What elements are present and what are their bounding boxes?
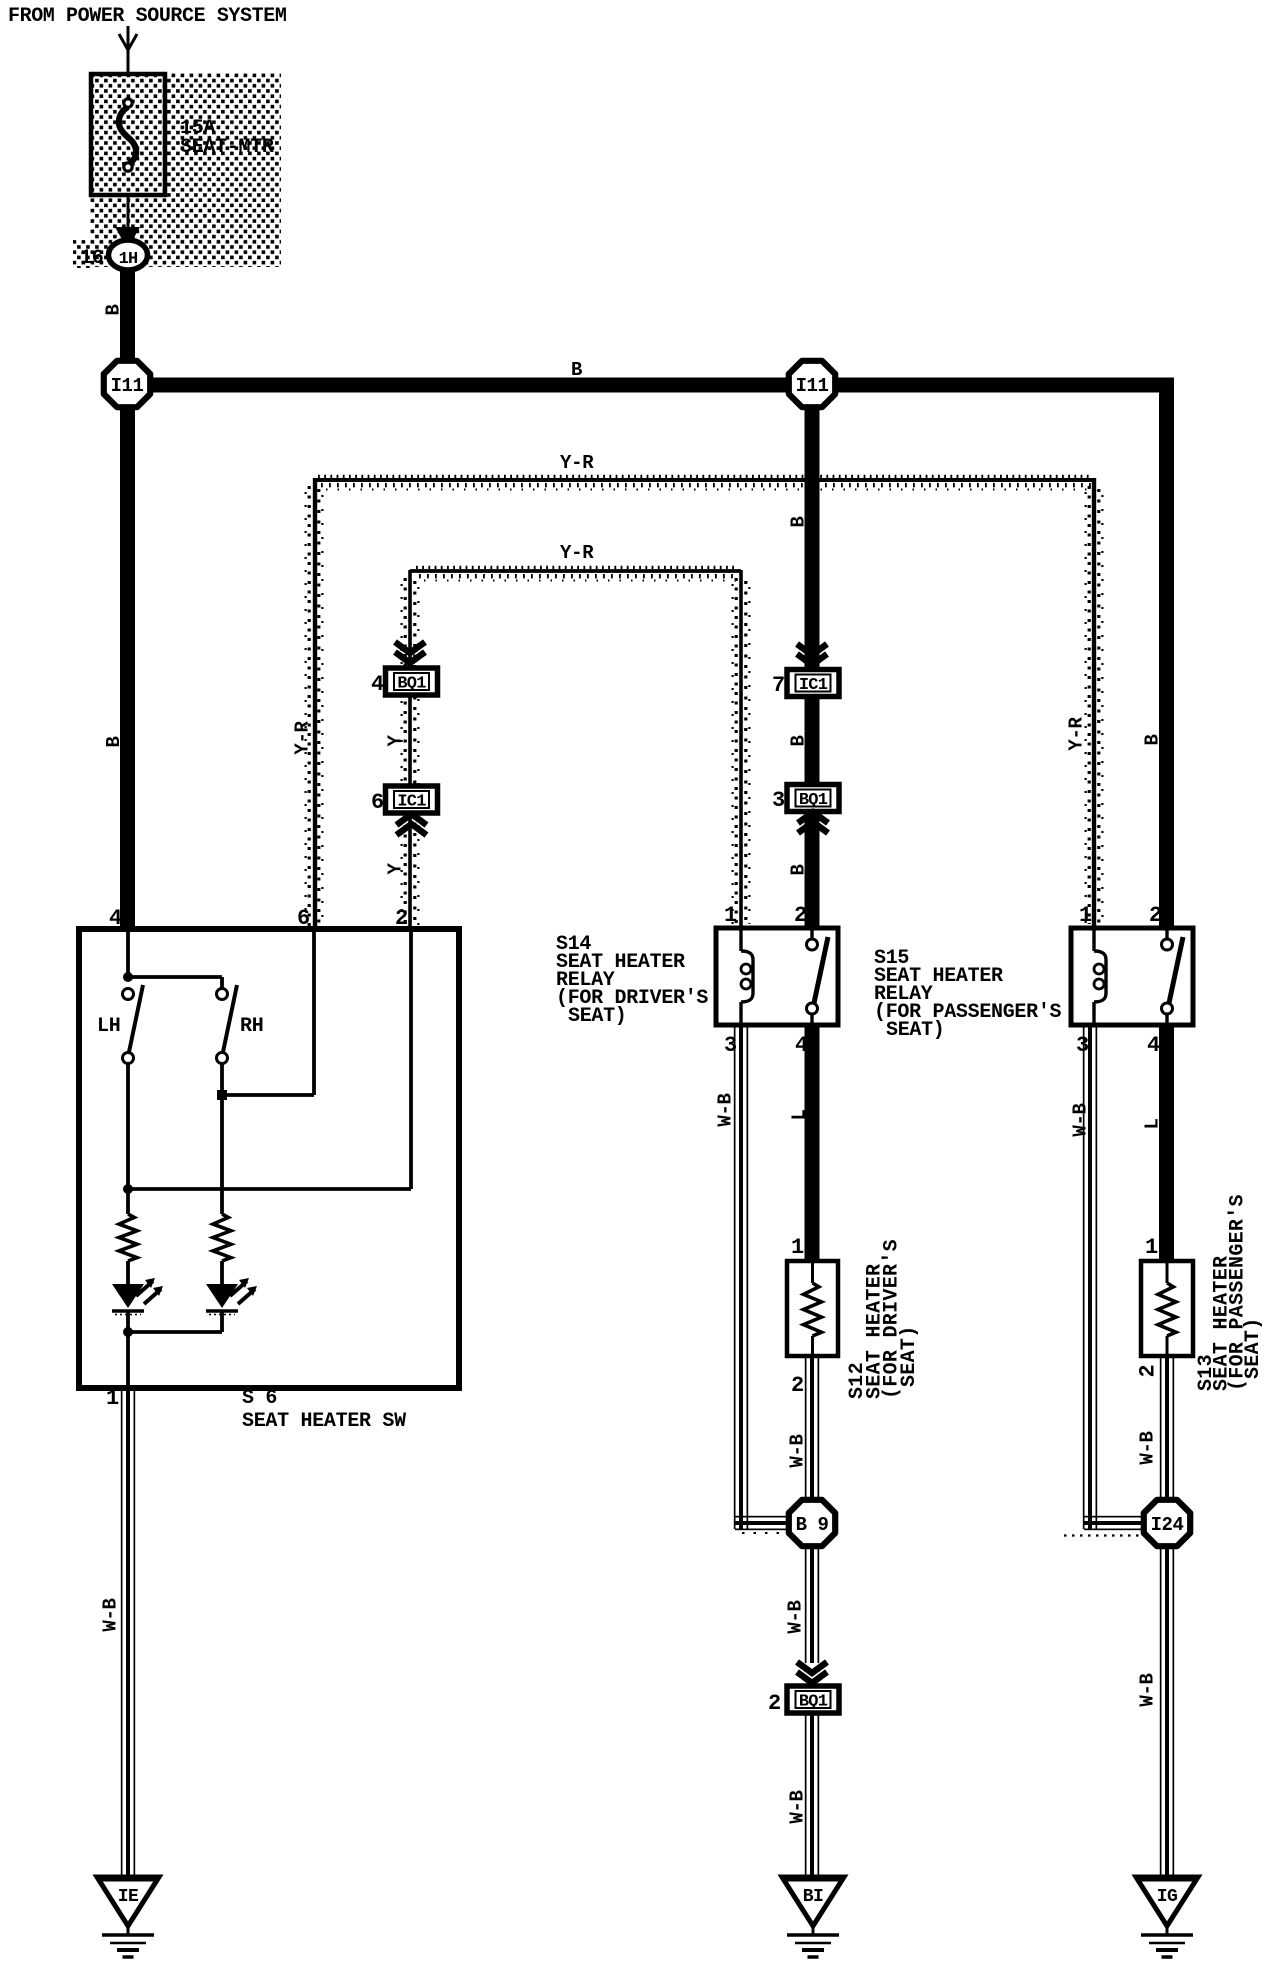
svg-text:3: 3 [1076,1033,1089,1058]
svg-text:IG: IG [1157,1887,1178,1907]
svg-text:B: B [788,864,810,875]
svg-text:1: 1 [1145,1235,1158,1260]
svg-text:IC1: IC1 [799,676,828,695]
svg-text:2: 2 [768,1691,781,1716]
svg-text:B: B [103,736,125,747]
svg-text:1: 1 [1079,903,1092,928]
svg-text:SEAT): SEAT) [898,1325,921,1387]
svg-text:SEAT): SEAT) [568,1005,627,1028]
svg-text:BQ1: BQ1 [799,1693,828,1712]
svg-text:2: 2 [395,906,408,931]
svg-text:6: 6 [297,906,310,931]
svg-text:Y-R: Y-R [1066,716,1088,750]
svg-text:W-B: W-B [787,1434,809,1467]
svg-text:S 6: S 6 [242,1387,277,1410]
svg-text:1: 1 [106,1386,119,1411]
svg-text:Y-R: Y-R [292,720,314,754]
svg-text:4: 4 [795,1033,808,1058]
svg-text:1H: 1H [119,250,138,269]
svg-text:BQ1: BQ1 [799,791,828,810]
svg-text:2: 2 [1136,1365,1161,1378]
svg-text:3: 3 [772,788,785,813]
svg-text:W-B: W-B [1137,1431,1159,1464]
svg-text:W-B: W-B [785,1600,807,1633]
svg-text:Y-R: Y-R [560,452,594,474]
svg-text:IC1: IC1 [397,793,426,812]
svg-text:6: 6 [371,790,384,815]
svg-text:SEAT): SEAT) [1242,1317,1265,1379]
svg-text:W-B: W-B [787,1790,809,1823]
svg-text:1: 1 [791,1235,804,1260]
svg-text:4: 4 [371,672,384,697]
svg-text:I11: I11 [796,375,829,397]
svg-text:2: 2 [1149,903,1162,928]
svg-text:W-B: W-B [715,1093,737,1126]
svg-text:B: B [103,304,125,315]
svg-text:W-B: W-B [1070,1103,1092,1136]
svg-text:FROM POWER SOURCE SYSTEM: FROM POWER SOURCE SYSTEM [8,5,287,28]
svg-text:L: L [789,1109,811,1120]
svg-text:SEAT HEATER SW: SEAT HEATER SW [242,1410,406,1433]
svg-text:L: L [1142,1118,1164,1129]
svg-text:1: 1 [724,903,737,928]
svg-text:B: B [788,516,810,527]
svg-text:SEAT): SEAT) [886,1019,945,1042]
svg-text:BQ1: BQ1 [397,675,426,694]
svg-text:3: 3 [724,1033,737,1058]
svg-text:IE: IE [118,1887,139,1907]
svg-text:B: B [571,359,582,381]
svg-text:16: 16 [80,247,103,270]
svg-text:B: B [1142,734,1164,745]
svg-text:Y: Y [385,863,407,875]
svg-text:I24: I24 [1151,1514,1184,1536]
svg-text:W-B: W-B [1137,1673,1159,1706]
svg-text:2: 2 [794,903,807,928]
svg-text:SEAT-MTR: SEAT-MTR [180,136,274,159]
svg-text:I11: I11 [111,375,144,397]
svg-text:B 9: B 9 [796,1514,829,1536]
svg-text:RH: RH [240,1015,263,1038]
svg-text:W-B: W-B [100,1598,122,1631]
svg-text:4: 4 [1147,1033,1160,1058]
svg-text:7: 7 [772,673,785,698]
svg-text:4: 4 [109,906,122,931]
svg-text:2: 2 [791,1373,804,1398]
svg-text:B: B [788,735,810,746]
svg-text:BI: BI [803,1887,824,1907]
svg-text:Y: Y [385,735,407,747]
svg-text:Y-R: Y-R [560,542,594,564]
svg-text:LH: LH [97,1015,120,1038]
